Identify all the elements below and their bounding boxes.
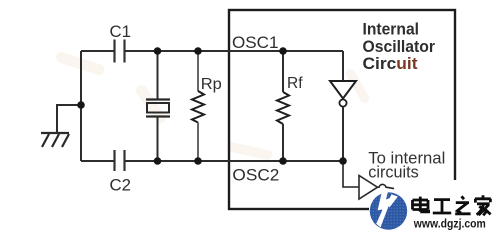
node OSC1 xyxy=(279,47,287,55)
wire OSC1 top net horizontal xyxy=(81,50,114,52)
ground xyxy=(41,133,69,147)
buffer U2 xyxy=(359,176,378,200)
wire buffer output with hop (logo hook) xyxy=(378,184,395,188)
wire Rp top xyxy=(197,51,199,91)
node inverter output xyxy=(339,157,347,165)
wire buffer tap xyxy=(343,161,359,187)
node Rf bottom xyxy=(279,157,287,165)
svg-text:Internal: Internal xyxy=(363,21,420,39)
svg-text:Rp: Rp xyxy=(201,76,222,93)
svg-text:OSC1: OSC1 xyxy=(232,33,279,52)
wire inverter output xyxy=(342,107,344,161)
svg-text:C1: C1 xyxy=(110,23,132,41)
glyph jia xyxy=(475,195,491,215)
wire crystal top xyxy=(157,51,159,99)
glyph zhi xyxy=(455,196,470,214)
watermark text 电工之家 xyxy=(413,195,491,215)
crystal Y1 xyxy=(146,100,170,117)
svg-text:C2: C2 xyxy=(110,177,132,195)
node ground tap xyxy=(77,101,85,109)
node Rp top xyxy=(194,47,202,55)
resistor Rf xyxy=(277,92,289,124)
wire left vertical xyxy=(80,51,82,161)
wire crystal bottom xyxy=(157,117,159,161)
node C1-crystal top xyxy=(154,47,162,55)
glyph dian xyxy=(413,197,429,212)
wire Rf top xyxy=(282,51,284,92)
wire OSC2 bottom net right xyxy=(125,160,343,162)
watermark logo circle xyxy=(370,190,407,229)
svg-text:Rf: Rf xyxy=(287,75,303,92)
resistor Rp xyxy=(192,91,204,123)
box U-chip Internal Oscillator Circuit boundary xyxy=(229,10,455,209)
svg-text:Circuit: Circuit xyxy=(363,55,419,73)
faint watermark streak left xyxy=(55,51,371,161)
svg-text:Oscillator: Oscillator xyxy=(363,38,436,56)
node crystal bottom xyxy=(154,157,162,165)
wire C1 right to corner xyxy=(125,50,343,52)
lightning bolt xyxy=(376,190,392,227)
node Rp bottom xyxy=(194,157,202,165)
wire Rp bottom xyxy=(197,123,199,162)
wire Rf bottom xyxy=(282,124,284,161)
svg-text:OSC2: OSC2 xyxy=(232,166,279,185)
watermark white backing xyxy=(369,180,500,236)
svg-text:circuits: circuits xyxy=(368,164,419,182)
glyph gong xyxy=(433,200,451,213)
capacitor C1 xyxy=(115,40,125,63)
op-amp U1 inverter xyxy=(330,81,356,107)
capacitor C2 xyxy=(115,150,125,171)
wire OSC2 bottom net left xyxy=(81,160,114,162)
wire ground tap xyxy=(57,105,81,133)
svg-text:www.dgzj.com: www.dgzj.com xyxy=(413,219,486,231)
wire inverter input drop xyxy=(342,51,344,81)
